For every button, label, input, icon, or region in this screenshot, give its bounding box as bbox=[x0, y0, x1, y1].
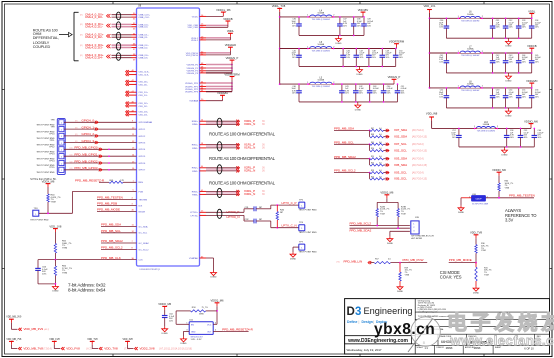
svg-text:TP12: TP12 bbox=[49, 147, 55, 149]
ground bbox=[389, 237, 391, 239]
wire bbox=[64, 155, 137, 157]
differential pair symbol bbox=[217, 188, 222, 197]
svg-text:VDD_MB_3V9: VDD_MB_3V9 bbox=[6, 316, 22, 318]
svg-text:PPD_MB_TESTEN: PPD_MB_TESTEN bbox=[97, 196, 123, 200]
capacitor C33 bbox=[518, 18, 520, 26]
inductor L5 bbox=[309, 81, 332, 84]
capacitor C55 bbox=[518, 88, 520, 96]
svg-text:3: 3 bbox=[355, 306, 361, 318]
svg-text:X07_SCL: X07_SCL bbox=[394, 142, 407, 146]
resistor R57 0.0 bbox=[371, 262, 375, 264]
svg-text:NC7SP17P5X 5MW: NC7SP17P5X 5MW bbox=[472, 204, 488, 206]
wire to ground bbox=[461, 197, 472, 199]
svg-text:GPIO4: GPIO4 bbox=[139, 149, 146, 151]
svg-text:TEST POINT RND: TEST POINT RND bbox=[36, 172, 55, 174]
svg-text:LPTX0-: LPTX0- bbox=[191, 215, 199, 217]
svg-text:CML4_0_D1-: CML4_0_D1- bbox=[85, 25, 103, 29]
wire bbox=[206, 24, 228, 26]
capacitor C38 bbox=[353, 17, 355, 24]
svg-text:CMB_D3-: CMB_D3- bbox=[139, 58, 149, 60]
svg-text:(R): (R) bbox=[80, 15, 83, 17]
ground bbox=[357, 102, 359, 103]
svg-text:X07_SDA: X07_SDA bbox=[394, 128, 407, 132]
resistor R40 4.02K pullup bbox=[47, 187, 49, 194]
svg-text:TEST POINT RND: TEST POINT RND bbox=[299, 232, 318, 234]
title block bbox=[345, 299, 550, 354]
svg-text:PPD_MB_CLK: PPD_MB_CLK bbox=[101, 256, 121, 260]
svg-text:500MA: 500MA bbox=[318, 79, 325, 82]
svg-text:PPD_MB_SCL: PPD_MB_SCL bbox=[101, 229, 121, 233]
svg-text:TDK DRN @ 100KHZ: TDK DRN @ 100KHZ bbox=[312, 86, 331, 88]
svg-text:GPIO1: GPIO1 bbox=[139, 129, 146, 131]
svg-text:500MA: 500MA bbox=[467, 83, 474, 86]
svg-text:TDK DRN @ 100KHZ: TDK DRN @ 100KHZ bbox=[477, 131, 496, 133]
svg-text:Y/5M: Y/5M bbox=[405, 274, 410, 276]
svg-text:5MW: 5MW bbox=[199, 314, 204, 316]
svg-text:VDDHS_P: VDDHS_P bbox=[388, 75, 401, 79]
wire bbox=[206, 145, 239, 147]
svg-text:TDK DRN @ 100KHZ: TDK DRN @ 100KHZ bbox=[312, 19, 331, 21]
capacitor C36 bbox=[298, 17, 300, 24]
svg-text:VDDHS_P0: VDDHS_P0 bbox=[186, 64, 198, 66]
svg-text:DGND: DGND bbox=[505, 46, 512, 48]
svg-text:VDDCB: VDDCB bbox=[223, 17, 233, 21]
svg-text:LPTX_C_P: LPTX_C_P bbox=[282, 201, 297, 205]
resistor R31 bbox=[475, 263, 477, 268]
svg-text:[A7,1G/11,1G/14,1G/16,15/18]: [A7,1G/11,1G/14,1G/16,15/18] bbox=[160, 348, 193, 351]
svg-text:ROUTE AS 100 OHM DIFFERENTIAL: ROUTE AS 100 OHM DIFFERENTIAL bbox=[209, 156, 276, 161]
svg-text:COAX: YES: COAX: YES bbox=[440, 275, 462, 280]
wire rail bbox=[430, 17, 532, 19]
svg-text:(R): (R) bbox=[80, 24, 83, 26]
svg-text:PPD_MB_MODE: PPD_MB_MODE bbox=[97, 208, 120, 212]
svg-text:4.7K: 4.7K bbox=[120, 180, 125, 182]
svg-text:www.D3Engineering.com: www.D3Engineering.com bbox=[347, 338, 408, 344]
ground bbox=[359, 66, 361, 67]
svg-text:CB1_D0+: CB1_D0+ bbox=[139, 81, 149, 83]
svg-text:(A3,7): (A3,7) bbox=[44, 328, 50, 331]
svg-text:DS90UB953TRGRTQ1: DS90UB953TRGRTQ1 bbox=[140, 269, 162, 271]
svg-text:10%: 10% bbox=[399, 57, 403, 59]
svg-text:54AUP: 54AUP bbox=[475, 198, 482, 201]
wire bbox=[64, 128, 137, 130]
ground bbox=[164, 327, 166, 329]
capacitor C40 bbox=[298, 84, 300, 91]
svg-text:Design: Design bbox=[362, 320, 373, 324]
svg-text:VDDHS_PP0: VDDHS_PP0 bbox=[185, 83, 199, 85]
svg-text:PPD_MB_LIN: PPD_MB_LIN bbox=[344, 260, 363, 264]
svg-text:J2B: J2B bbox=[415, 217, 419, 219]
svg-text:CMB_CLK-: CMB_CLK- bbox=[139, 17, 150, 19]
svg-text:PPD_MB_GPIO3: PPD_MB_GPIO3 bbox=[74, 166, 98, 170]
wire bbox=[206, 26, 228, 28]
svg-text:X1RL_N: X1RL_N bbox=[244, 146, 255, 150]
svg-text:|: | bbox=[359, 320, 360, 324]
wire bbox=[206, 122, 239, 124]
capacitor C44 bbox=[518, 53, 520, 61]
svg-text:CLK: CLK bbox=[139, 260, 144, 262]
differential pair symbol bbox=[217, 165, 222, 174]
svg-text:CB1_D1+: CB1_D1+ bbox=[139, 92, 149, 94]
svg-text:VDDA8A: VDDA8A bbox=[217, 91, 228, 95]
resistor R56 27.4K bbox=[54, 260, 56, 266]
capacitor C58 bbox=[506, 128, 508, 135]
svg-text:VDDL_TV8: VDDL_TV8 bbox=[272, 4, 286, 8]
svg-text:VDDL: VDDL bbox=[528, 9, 536, 13]
svg-text:PPD_MB_SDA: PPD_MB_SDA bbox=[334, 127, 354, 131]
capacitor C47 bbox=[355, 49, 357, 56]
wire bbox=[64, 169, 137, 171]
svg-text:10%: 10% bbox=[496, 27, 500, 29]
svg-text:10%: 10% bbox=[535, 27, 539, 29]
svg-text:PPD_MB_SCL2: PPD_MB_SCL2 bbox=[334, 169, 356, 173]
svg-text:TP14: TP14 bbox=[49, 160, 55, 162]
svg-text:10%: 10% bbox=[439, 27, 443, 29]
svg-text:10%: 10% bbox=[345, 93, 349, 95]
svg-text:VDDIO_M6: VDDIO_M6 bbox=[492, 168, 506, 172]
wire bbox=[206, 192, 239, 194]
svg-text:Engineering: Engineering bbox=[364, 306, 413, 316]
svg-text:VDDHS_PP2: VDDHS_PP2 bbox=[185, 89, 199, 91]
svg-text:(R): (R) bbox=[75, 134, 78, 136]
inductor L4 bbox=[309, 14, 332, 17]
svg-text:GPIO4_3: GPIO4_3 bbox=[82, 139, 95, 143]
svg-text:PPD_MB_SDA2: PPD_MB_SDA2 bbox=[334, 155, 356, 159]
svg-text:(R): (R) bbox=[80, 45, 83, 47]
svg-text:(15): (15) bbox=[69, 168, 73, 170]
wire feed rail bbox=[279, 12, 281, 84]
RIN2 differential pair bbox=[200, 167, 207, 169]
wire bbox=[112, 34, 132, 36]
svg-text:PPD_MB_GPIO2: PPD_MB_GPIO2 bbox=[74, 159, 98, 163]
differential pair symbol bbox=[116, 12, 120, 20]
svg-text:CB1_D3+: CB1_D3+ bbox=[139, 112, 149, 114]
capacitor C30 bbox=[445, 18, 447, 26]
wire bbox=[112, 44, 132, 46]
ground bbox=[399, 285, 401, 287]
svg-text:PPD_MB_SDA2: PPD_MB_SDA2 bbox=[101, 239, 123, 243]
svg-text:58: 58 bbox=[201, 143, 203, 145]
svg-text:(15): (15) bbox=[69, 161, 73, 163]
capacitor C42 bbox=[355, 84, 357, 91]
svg-text:TP15: TP15 bbox=[49, 167, 55, 169]
svg-text:500MA: 500MA bbox=[467, 48, 474, 51]
capacitor C54 bbox=[505, 88, 507, 96]
wire bottom rail bbox=[446, 37, 531, 39]
resistor R55 100K bbox=[54, 244, 56, 254]
svg-text:CB1_D0-: CB1_D0- bbox=[139, 84, 148, 86]
wire rail bbox=[430, 52, 532, 54]
wire bbox=[206, 67, 232, 69]
capacitor C32 bbox=[505, 18, 507, 26]
svg-text:DGND: DGND bbox=[180, 343, 187, 345]
svg-text:(R): (R) bbox=[75, 121, 78, 123]
svg-text:10%: 10% bbox=[359, 93, 363, 95]
capacitor C43 bbox=[505, 53, 507, 61]
svg-text:10%: 10% bbox=[343, 25, 347, 27]
svg-text:VDDAHD: VDDAHD bbox=[225, 43, 236, 47]
svg-text:8-bit Address: 0x64: 8-bit Address: 0x64 bbox=[68, 287, 106, 292]
wire bbox=[334, 143, 370, 145]
svg-text:GPIO2: GPIO2 bbox=[139, 136, 146, 138]
svg-text:DGND: DGND bbox=[501, 154, 508, 156]
svg-text:PPD_MB_SCL2: PPD_MB_SCL2 bbox=[350, 221, 372, 225]
svg-text:DGND: DGND bbox=[505, 115, 512, 117]
capacitor C37 bbox=[339, 17, 341, 24]
wire + ground bbox=[38, 283, 55, 285]
capacitor C43 bbox=[369, 84, 371, 91]
CB1 pin stub pair 4 bbox=[126, 101, 128, 104]
svg-text:VDDCB: VDDCB bbox=[527, 44, 537, 48]
svg-text:10%: 10% bbox=[372, 57, 376, 59]
svg-text:TDK DRN @ 100KHZ: TDK DRN @ 100KHZ bbox=[461, 55, 480, 57]
svg-text:10%: 10% bbox=[522, 27, 526, 29]
svg-text:Y/5M: Y/5M bbox=[481, 250, 486, 252]
svg-text:VCC: VCC bbox=[207, 325, 212, 327]
svg-text:10%: 10% bbox=[522, 96, 526, 98]
svg-text:Wednesday, July 19, 2017: Wednesday, July 19, 2017 bbox=[347, 348, 382, 352]
svg-text:RIN2-: RIN2- bbox=[192, 171, 198, 173]
svg-text:ybx8.cn: ybx8.cn bbox=[374, 321, 435, 338]
svg-text:X03_SCL: X03_SCL bbox=[394, 170, 407, 174]
svg-text:10%: 10% bbox=[509, 96, 513, 98]
svg-text:10%: 10% bbox=[509, 27, 513, 29]
svg-text:VDDL: VDDL bbox=[227, 29, 235, 33]
svg-text:60: 60 bbox=[201, 166, 203, 168]
svg-text:10%: 10% bbox=[538, 137, 542, 139]
svg-text:VDDQ_M6: VDDQ_M6 bbox=[211, 298, 224, 302]
svg-text:10%: 10% bbox=[292, 57, 296, 59]
svg-text:GPIO4_0: GPIO4_0 bbox=[82, 119, 95, 123]
svg-text:VDDL2: VDDL2 bbox=[191, 40, 199, 42]
svg-text:D: D bbox=[347, 306, 355, 318]
RIN3 differential pair bbox=[200, 190, 207, 192]
capacitor C41 bbox=[341, 84, 343, 91]
ground bbox=[508, 108, 510, 109]
wire after caps bbox=[256, 208, 271, 210]
svg-text:(A,7): (A,7) bbox=[86, 348, 91, 351]
svg-text:500MA: 500MA bbox=[467, 13, 474, 16]
svg-text:TDK DRN @ 100KHZ: TDK DRN @ 100KHZ bbox=[312, 51, 331, 53]
svg-text:GC_SDA2: GC_SDA2 bbox=[139, 242, 150, 245]
ground bbox=[508, 73, 510, 74]
capacitor C34 bbox=[531, 18, 533, 26]
svg-text:CMB_D1-: CMB_D1- bbox=[139, 37, 149, 39]
CB1 pin stub pair 5 bbox=[126, 110, 128, 113]
svg-text:DGND: DGND bbox=[355, 109, 362, 111]
svg-text:[A8,7G/14]: [A8,7G/14] bbox=[412, 158, 424, 161]
svg-text:GND: GND bbox=[191, 331, 196, 333]
capacitor C31 bbox=[492, 18, 494, 26]
svg-text:10%: 10% bbox=[292, 25, 296, 27]
CB1 pin stub pair 3 bbox=[126, 91, 128, 94]
svg-text:VDD_TV8: VDD_TV8 bbox=[470, 230, 483, 234]
svg-text:GPIO0/MDAB: GPIO0/MDAB bbox=[139, 121, 153, 124]
svg-text:X0RL_N: X0RL_N bbox=[244, 122, 255, 126]
svg-text:10%: 10% bbox=[535, 96, 539, 98]
svg-text:NP: NP bbox=[280, 212, 284, 214]
wire bottom rail bbox=[299, 101, 398, 103]
svg-text:[A8,7G/14]: [A8,7G/14] bbox=[412, 129, 424, 132]
capacitor C41 bbox=[445, 53, 447, 61]
svg-text:RIN3-: RIN3- bbox=[192, 194, 198, 196]
wire bottom rail bbox=[459, 146, 534, 148]
capacitor C50 bbox=[395, 49, 397, 56]
svg-text:X3RL_N: X3RL_N bbox=[244, 192, 255, 196]
svg-text:TP11: TP11 bbox=[49, 140, 55, 142]
svg-text:PPD_MB_GPIO0: PPD_MB_GPIO0 bbox=[74, 146, 98, 150]
svg-text:Y/5M: Y/5M bbox=[51, 202, 56, 204]
ground bbox=[213, 271, 215, 273]
svg-text:TEST POINT RND: TEST POINT RND bbox=[30, 219, 49, 221]
wire bbox=[64, 121, 137, 123]
svg-text:10%: 10% bbox=[524, 137, 528, 139]
capacitor C46 bbox=[342, 49, 344, 56]
inductor L5 bbox=[309, 46, 332, 49]
svg-text:10%: 10% bbox=[360, 57, 364, 59]
svg-text:VDDHS_P: VDDHS_P bbox=[226, 56, 239, 60]
svg-text:DWN BY: DWN BY bbox=[437, 347, 445, 349]
svg-text:10%: 10% bbox=[522, 61, 526, 63]
svg-text:Y/5M: Y/5M bbox=[505, 188, 510, 190]
svg-text:www.elecfans.com: www.elecfans.com bbox=[450, 333, 554, 348]
inductor L7 bbox=[460, 50, 481, 53]
svg-text:TEST POINT RND: TEST POINT RND bbox=[299, 210, 318, 212]
svg-text:TEST POINT RND: TEST POINT RND bbox=[299, 252, 318, 254]
svg-text:ROUTE AS 100 OHM DIFFERENTIAL: ROUTE AS 100 OHM DIFFERENTIAL bbox=[209, 181, 276, 186]
svg-text:VDD_FV8: VDD_FV8 bbox=[66, 347, 80, 351]
wire bottom rail bbox=[299, 65, 396, 67]
svg-text:DGND: DGND bbox=[210, 277, 217, 279]
svg-text:DGND: DGND bbox=[473, 292, 480, 294]
svg-text:RIN2+: RIN2+ bbox=[192, 168, 199, 170]
wire bbox=[206, 85, 232, 87]
wire bbox=[206, 82, 232, 84]
wire bbox=[64, 135, 137, 137]
svg-text:[A8,7G/14,15]: [A8,7G/14,15] bbox=[412, 136, 427, 139]
svg-text:VDDIO_M6: VDDIO_M6 bbox=[524, 119, 538, 123]
wire VSMPAD to ground bbox=[200, 257, 207, 259]
resistor R60 100K bbox=[498, 183, 500, 191]
svg-text:PPD_MB_MODE: PPD_MB_MODE bbox=[449, 258, 472, 262]
svg-text:TDK DRN @ 100KHZ: TDK DRN @ 100KHZ bbox=[461, 20, 480, 22]
resistor R23 4.02K bbox=[397, 209, 399, 217]
capacitor C45 bbox=[298, 49, 300, 56]
svg-text:DGND: DGND bbox=[397, 291, 404, 293]
wire bottom rail bbox=[446, 107, 531, 109]
svg-text:Y/5M: Y/5M bbox=[484, 274, 489, 276]
inductor L10 bbox=[476, 126, 496, 129]
wire bbox=[206, 88, 232, 90]
svg-text:10%: 10% bbox=[496, 96, 500, 98]
capacitor C53 bbox=[492, 88, 494, 96]
svg-text:10%: 10% bbox=[292, 93, 296, 95]
svg-text:CML4_0_D2-: CML4_0_D2- bbox=[85, 35, 103, 39]
watermark elecfans stamp bbox=[408, 311, 554, 353]
wire bbox=[206, 54, 230, 56]
svg-text:X02_SDA: X02_SDA bbox=[394, 135, 407, 139]
wire VCC bbox=[213, 323, 217, 325]
ground bbox=[508, 38, 510, 39]
svg-text:CML4_0_D3-: CML4_0_D3- bbox=[85, 45, 103, 49]
svg-text:TP10: TP10 bbox=[49, 133, 55, 135]
svg-text:DGND: DGND bbox=[52, 291, 59, 293]
svg-text:SCALE: SCALE bbox=[417, 346, 424, 349]
test point group box bbox=[57, 119, 65, 175]
svg-text:LPTX_C_N: LPTX_C_N bbox=[282, 224, 297, 228]
svg-text:VDD18V: VDD18V bbox=[358, 8, 369, 12]
capacitor C64 bbox=[162, 315, 168, 317]
capacitor C63 bbox=[37, 260, 39, 269]
svg-text:DGND: DGND bbox=[387, 243, 394, 245]
differential pair symbol bbox=[217, 142, 222, 151]
svg-text:DGND: DGND bbox=[290, 258, 297, 260]
svg-text:PPD_MB_PDB: PPD_MB_PDB bbox=[97, 202, 117, 206]
svg-text:Y/5M: Y/5M bbox=[401, 213, 406, 215]
differential pair symbol bbox=[116, 32, 120, 40]
CB1 pin stub pair 2 bbox=[126, 80, 128, 83]
wire rail bbox=[280, 48, 397, 50]
svg-text:CB1_D3-: CB1_D3- bbox=[139, 115, 148, 117]
wire bbox=[334, 158, 370, 160]
wire bbox=[391, 262, 428, 264]
svg-text:VDD_MB_3V9: VDD_MB_3V9 bbox=[24, 327, 44, 331]
svg-text:VDD2_3V8: VDD2_3V8 bbox=[140, 347, 155, 351]
wire bbox=[112, 54, 132, 56]
svg-text:(R): (R) bbox=[80, 35, 83, 37]
wire rail bbox=[280, 83, 394, 85]
svg-text:LPTX0+: LPTX0+ bbox=[190, 212, 199, 214]
svg-text:CB1_D2-: CB1_D2- bbox=[139, 106, 148, 108]
svg-text:PPD_MB_PCW: PPD_MB_PCW bbox=[403, 258, 424, 262]
svg-text:RIN0+: RIN0+ bbox=[192, 121, 199, 123]
svg-text:10%: 10% bbox=[510, 137, 514, 139]
svg-text:RES: RES bbox=[139, 182, 144, 184]
capacitor C44 bbox=[383, 84, 385, 91]
svg-text:10%: 10% bbox=[509, 61, 513, 63]
svg-text:Y/5M: Y/5M bbox=[62, 248, 67, 250]
svg-text:X2RL_N: X2RL_N bbox=[244, 169, 255, 173]
wire rail bbox=[430, 87, 532, 89]
RIN0 differential pair bbox=[200, 120, 207, 122]
differential pair symbol bbox=[116, 22, 120, 30]
svg-text:GC_SCL: GC_SCL bbox=[139, 233, 149, 235]
wire bottom rail bbox=[446, 72, 531, 74]
svg-text:10%: 10% bbox=[535, 61, 539, 63]
svg-text:PPD_MB_SCL2: PPD_MB_SCL2 bbox=[101, 246, 123, 250]
wire TP7 to ground bbox=[293, 246, 299, 248]
svg-text:VDD_TV8: VDD_TV8 bbox=[87, 339, 98, 341]
svg-text:DGND: DGND bbox=[356, 74, 363, 76]
svg-text:56: 56 bbox=[201, 120, 203, 122]
svg-text:COUPLED: COUPLED bbox=[33, 45, 51, 49]
svg-text:PPD_MB_GPIO1: PPD_MB_GPIO1 bbox=[74, 153, 98, 157]
svg-text:VDD_1V1: VDD_1V1 bbox=[424, 4, 436, 8]
capacitor C52 bbox=[445, 88, 447, 96]
svg-text:10%: 10% bbox=[169, 320, 173, 322]
svg-text:VDDHS_PP3: VDDHS_PP3 bbox=[185, 92, 199, 94]
ground bbox=[338, 35, 340, 36]
wire bbox=[334, 172, 370, 174]
svg-text:VDD_MB_7V8: VDD_MB_7V8 bbox=[6, 339, 22, 341]
svg-text:MODE: MODE bbox=[139, 211, 146, 213]
svg-text:GPIO7: GPIO7 bbox=[139, 170, 146, 172]
inductor L8 bbox=[460, 85, 481, 88]
svg-text:[A8,7G/14,15]: [A8,7G/14,15] bbox=[412, 149, 427, 152]
wire OUT bbox=[213, 330, 222, 332]
svg-text:DGND: DGND bbox=[162, 333, 169, 335]
svg-text:10%: 10% bbox=[439, 61, 443, 63]
